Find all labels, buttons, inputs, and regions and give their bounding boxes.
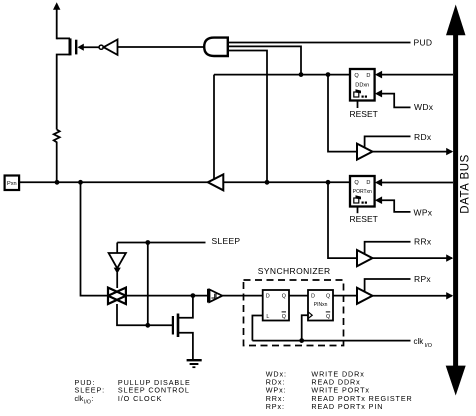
driver output buffer xyxy=(208,174,224,190)
buffer RPx xyxy=(357,274,431,304)
resistor pullup xyxy=(54,130,60,183)
svg-text:clk: clk xyxy=(75,394,84,403)
wire RPx output xyxy=(372,292,453,299)
transistor pullup pMOS xyxy=(57,38,99,129)
wire schmitt output xyxy=(222,295,262,297)
svg-text:RPx:: RPx: xyxy=(266,402,285,411)
svg-text:DDxn: DDxn xyxy=(355,83,369,89)
svg-text:Q: Q xyxy=(282,294,286,300)
svg-text:RRx: RRx xyxy=(414,236,432,246)
wire WDx xyxy=(375,90,434,112)
transmission-gate bowtie xyxy=(108,288,126,304)
wire AND input1 PUD xyxy=(228,42,411,44)
svg-text:I/O CLOCK: I/O CLOCK xyxy=(118,394,162,403)
wire sync input drop xyxy=(81,182,109,295)
flip-flop PINxn xyxy=(308,290,333,321)
svg-text:SLEEP: SLEEP xyxy=(212,236,241,246)
power VCC arrow xyxy=(53,2,60,39)
svg-text:WDx: WDx xyxy=(414,102,434,112)
svg-text::: : xyxy=(92,394,95,403)
svg-text:Pxn: Pxn xyxy=(7,181,17,187)
synchronizer box xyxy=(244,266,344,345)
svg-text:L: L xyxy=(266,314,269,320)
wire DDxn D input xyxy=(381,74,454,76)
wire WPx xyxy=(375,196,433,217)
svg-text:I/O: I/O xyxy=(425,343,433,349)
svg-text:D: D xyxy=(366,180,370,186)
wire RRx input xyxy=(328,182,357,258)
svg-text:SYNCHRONIZER: SYNCHRONIZER xyxy=(258,266,331,276)
svg-text:DATA BUS: DATA BUS xyxy=(460,154,472,214)
svg-text:Q: Q xyxy=(354,180,359,186)
wire latch L xyxy=(252,316,262,341)
wire ff clock xyxy=(302,315,308,340)
wire bowtie lower gate xyxy=(117,304,173,325)
inverter pullup-gate driver xyxy=(99,40,117,55)
svg-text:Q: Q xyxy=(282,314,286,320)
wire AND input2 xyxy=(228,46,301,74)
node in3-Q junction xyxy=(265,180,270,185)
legend right xyxy=(266,370,413,411)
svg-text:Q: Q xyxy=(326,294,330,300)
svg-text:D: D xyxy=(366,73,370,79)
pad Pxn xyxy=(5,176,20,191)
node Q-RDx junction xyxy=(326,72,331,77)
net RESET PORTxn xyxy=(350,207,378,225)
svg-text:D: D xyxy=(311,294,315,300)
ground xyxy=(187,360,202,367)
wire RDx output xyxy=(372,148,453,155)
wire clk line xyxy=(252,340,410,342)
wire latch-to-ff xyxy=(289,295,308,297)
wire RDx input xyxy=(328,75,357,152)
wire output-enable drop xyxy=(213,75,215,179)
wire PORTxn D input xyxy=(381,182,454,184)
inverter SLEEP xyxy=(109,243,126,289)
node pin-pullup junction xyxy=(55,180,60,185)
node in2-Q junction xyxy=(299,72,304,77)
buffer RDx xyxy=(357,132,432,160)
node pin-sync junction xyxy=(78,180,83,185)
legend left xyxy=(75,378,191,405)
svg-text:clk: clk xyxy=(414,337,425,346)
buffer RRx xyxy=(357,236,432,266)
wire DDxn Q line xyxy=(214,74,350,76)
wire pin line xyxy=(20,181,208,183)
node clk junction xyxy=(299,338,304,343)
buffer schmitt-trigger xyxy=(208,289,222,303)
svg-text:D: D xyxy=(266,294,270,300)
wire RRx output xyxy=(372,254,453,261)
node Q-RRx junction xyxy=(326,180,331,185)
flip-flop DDxn xyxy=(350,69,375,101)
wire inverter input xyxy=(118,46,206,48)
data bus xyxy=(446,5,472,396)
flip-flop PORTxn xyxy=(350,176,375,207)
svg-text:WPx: WPx xyxy=(414,207,433,217)
svg-text:Q: Q xyxy=(354,73,359,79)
svg-text:RESET: RESET xyxy=(350,214,378,224)
svg-text:RDx: RDx xyxy=(414,132,432,142)
wire PORTxn Q line xyxy=(223,181,350,183)
transistor nMOS sleep-clamp xyxy=(173,297,193,360)
gate AND pullup-enable xyxy=(204,38,228,56)
svg-text:PUD: PUD xyxy=(414,37,433,47)
wire ff Q output xyxy=(333,295,357,297)
svg-text:I/O: I/O xyxy=(84,399,91,405)
latch sync-1 xyxy=(263,290,289,321)
svg-text:RESET: RESET xyxy=(350,109,378,119)
wire SLEEP net xyxy=(117,236,240,328)
svg-text:Q: Q xyxy=(326,314,330,320)
node nMOS-drain junction xyxy=(191,293,196,298)
svg-text:RPx: RPx xyxy=(414,274,431,284)
wire AND input3 xyxy=(228,51,267,183)
svg-text:READ PORTx PIN: READ PORTx PIN xyxy=(311,402,383,411)
svg-text:PORTxn: PORTxn xyxy=(353,189,372,195)
wire bowtie output xyxy=(126,295,208,297)
svg-text:PINxn: PINxn xyxy=(314,302,328,308)
net RESET DDxn xyxy=(350,101,378,120)
net clk I/O xyxy=(414,337,433,349)
